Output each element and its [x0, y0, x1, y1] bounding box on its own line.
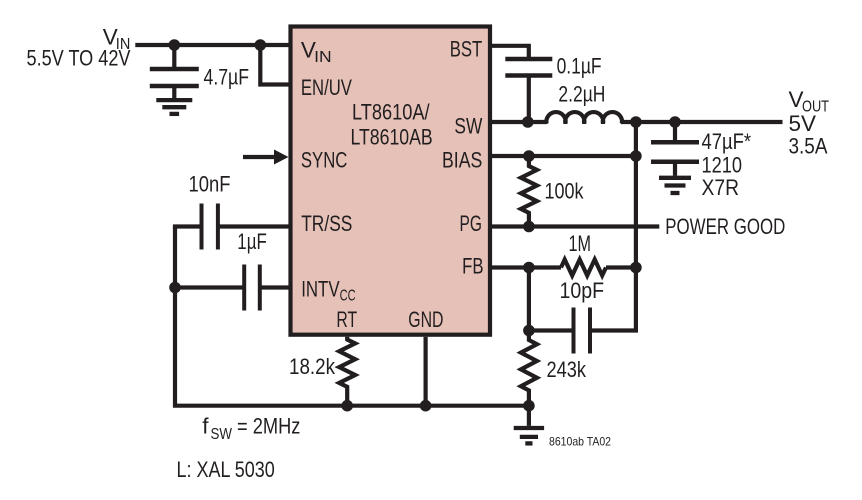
wire inductor to VOUT	[621, 120, 783, 124]
wire BST to C4	[492, 46, 529, 57]
svg-text:1210: 1210	[702, 153, 743, 178]
wire TR/SS left	[173, 224, 200, 228]
svg-text:2.2µH: 2.2µH	[558, 82, 605, 107]
svg-text:BIAS: BIAS	[442, 148, 482, 173]
wire BIAS	[492, 154, 636, 158]
wire 10pF left	[529, 328, 572, 332]
svg-text:3.5A: 3.5A	[789, 134, 828, 159]
wire FB vertical	[527, 268, 531, 331]
svg-text:POWER GOOD: POWER GOOD	[665, 214, 785, 239]
wire PG to POWER GOOD	[492, 224, 659, 228]
ground under C5	[659, 176, 691, 180]
wire 10pF right up to FB node	[592, 268, 636, 331]
svg-text:PG: PG	[460, 211, 482, 236]
wire TR/SS right	[220, 224, 289, 228]
svg-text:SYNC: SYNC	[301, 148, 348, 173]
wire EN/UV branch	[260, 45, 288, 85]
svg-text:X7R: X7R	[702, 175, 740, 200]
svg-text:5V: 5V	[789, 111, 817, 136]
wire left rail	[175, 227, 350, 406]
svg-text:BST: BST	[450, 37, 483, 62]
wire output vertical rail	[634, 122, 638, 268]
svg-text:RT: RT	[336, 307, 357, 332]
op-amp U1 : LT8610A/LT8610AB IC body	[291, 27, 491, 335]
wire INTVcc left	[175, 285, 243, 289]
svg-text:TR/SS: TR/SS	[301, 211, 352, 236]
capacitor C3 1uF	[242, 265, 246, 311]
resistor R2 100k	[521, 156, 537, 227]
svg-text:EN/UV: EN/UV	[301, 75, 352, 100]
wire SYNC arrow shaft	[243, 155, 275, 159]
wire VIN input to IC	[135, 43, 288, 47]
inductor L1 2.2uH	[546, 112, 622, 124]
svg-text:5.5V TO 42V: 5.5V TO 42V	[27, 46, 131, 71]
capacitor C1 4.7uF	[172, 45, 176, 67]
capacitor C4 0.1uF	[505, 57, 552, 62]
svg-text:IN: IN	[314, 49, 332, 66]
wire 1M to rail	[606, 265, 636, 269]
svg-text:LT8610A/: LT8610A/	[352, 100, 430, 125]
node junction dots	[169, 39, 181, 51]
svg-text:243k: 243k	[547, 357, 587, 382]
capacitor C6 10pF	[572, 308, 576, 354]
svg-text:1µF: 1µF	[237, 229, 266, 254]
svg-text:8610ab TA02: 8610ab TA02	[549, 435, 611, 449]
resistor R3 1M	[561, 260, 606, 276]
svg-text:1M: 1M	[569, 231, 592, 256]
svg-text:10pF: 10pF	[560, 278, 605, 303]
ground under C1	[156, 98, 192, 102]
wire SW to inductor	[492, 120, 548, 124]
resistor R4 243k	[521, 331, 537, 406]
resistor R1 18.2k	[339, 337, 355, 406]
svg-text:SW: SW	[211, 426, 233, 443]
svg-text:= 2MHz: = 2MHz	[237, 414, 300, 439]
svg-text:f: f	[202, 414, 209, 439]
wire INTVcc right	[262, 285, 289, 289]
svg-text:47µF*: 47µF*	[702, 129, 752, 154]
svg-text:FB: FB	[462, 253, 483, 278]
svg-text:18.2k: 18.2k	[289, 354, 336, 379]
SYNC arrowhead	[274, 150, 289, 165]
svg-text:INTV: INTV	[301, 277, 339, 302]
capacitor C2 10nF	[200, 204, 204, 250]
svg-text:CC: CC	[340, 288, 356, 305]
svg-text:10nF: 10nF	[189, 172, 231, 197]
capacitor C5 47uF	[673, 122, 677, 140]
wire FB	[492, 265, 561, 269]
svg-text:0.1µF: 0.1µF	[557, 54, 602, 79]
svg-text:GND: GND	[408, 307, 443, 332]
wire GND pin	[424, 337, 428, 406]
svg-text:L: XAL 5030: L: XAL 5030	[177, 457, 275, 482]
svg-text:LT8610AB: LT8610AB	[351, 124, 433, 149]
wire bottom rail	[345, 404, 529, 408]
ground under R4	[527, 406, 531, 426]
svg-text:4.7µF: 4.7µF	[204, 65, 250, 90]
svg-text:SW: SW	[454, 114, 482, 139]
svg-text:100k: 100k	[545, 179, 585, 204]
